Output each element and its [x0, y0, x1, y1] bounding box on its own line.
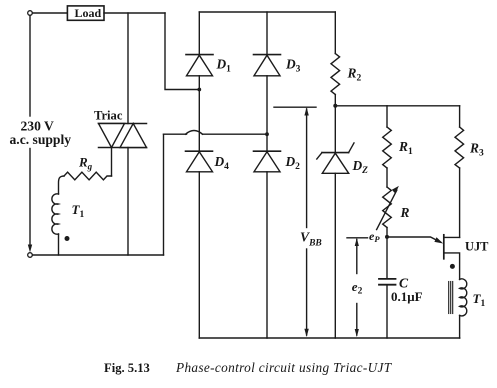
svg-text:VBB: VBB [300, 230, 322, 249]
svg-text:D2: D2 [285, 154, 301, 172]
svg-text:D1: D1 [216, 57, 232, 75]
svg-text:UJT: UJT [465, 240, 489, 254]
svg-text:D3: D3 [285, 57, 301, 75]
svg-text:Triac: Triac [94, 109, 123, 123]
svg-text:R1: R1 [398, 139, 413, 157]
svg-text:R2: R2 [347, 66, 362, 84]
svg-text:eP: eP [369, 229, 380, 244]
svg-text:R3: R3 [469, 141, 484, 159]
svg-text:Rg: Rg [78, 155, 93, 172]
svg-text:e2: e2 [352, 279, 363, 297]
svg-text:D4: D4 [214, 154, 230, 172]
svg-text:0.1μF: 0.1μF [391, 289, 423, 304]
svg-text:Phase-control circuit using Tr: Phase-control circuit using Triac-UJT [175, 360, 393, 375]
svg-text:T1: T1 [473, 291, 486, 309]
svg-text:R: R [400, 205, 410, 220]
svg-text:Load: Load [75, 6, 102, 20]
svg-text:T1: T1 [72, 202, 85, 220]
svg-text:Fig. 5.13: Fig. 5.13 [104, 361, 150, 375]
svg-text:a.c. supply: a.c. supply [10, 132, 72, 147]
svg-text:DZ: DZ [352, 158, 369, 176]
